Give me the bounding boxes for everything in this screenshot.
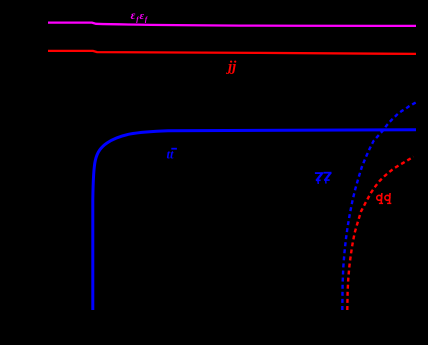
svg-text:εfεf: εfεf xyxy=(131,10,149,24)
svg-text:jj: jj xyxy=(226,59,237,75)
